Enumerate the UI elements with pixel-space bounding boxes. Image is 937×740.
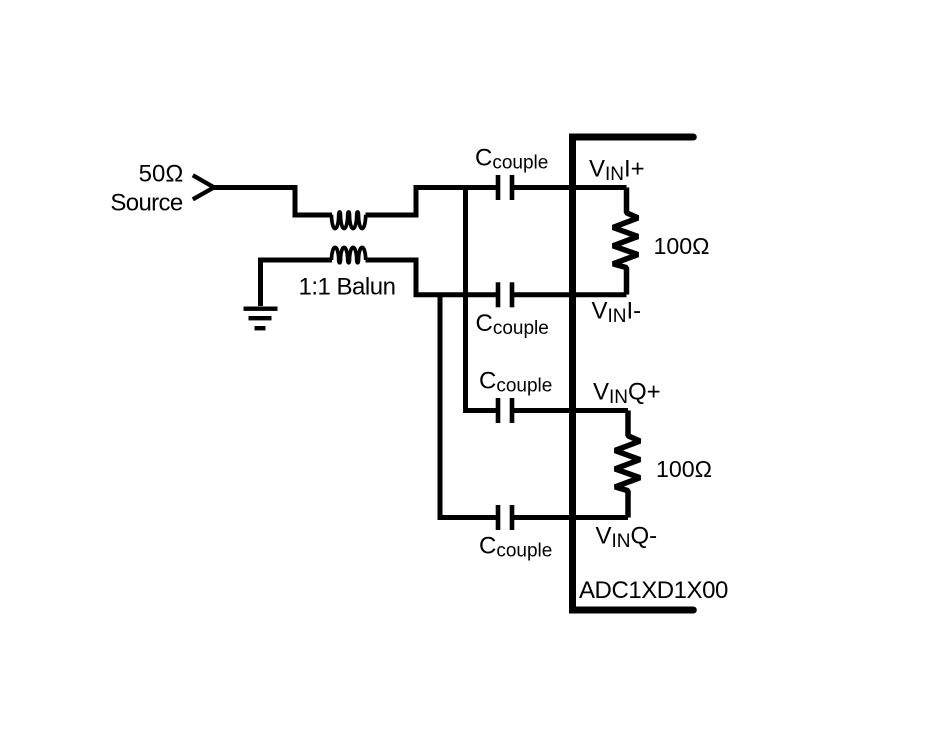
resistor R2 100Ω (Q channel)	[615, 411, 640, 518]
resistor R1 100Ω (I channel)	[613, 188, 638, 295]
vertical wire B: bottom output down to Q- row	[438, 295, 443, 518]
source arrow	[193, 175, 214, 199]
svg-text:Source: Source	[110, 190, 182, 217]
svg-text:1:1 Balun: 1:1 Balun	[299, 274, 396, 301]
wire: row3 from vertical A to cap C3	[463, 408, 497, 413]
wire: balun primary to row1 and cap C1	[366, 188, 498, 216]
wire: balun secondary to row2 and cap C2	[366, 260, 498, 295]
vertical wire A: top output down to Q+ row	[463, 188, 468, 411]
capacitor C1 (Ccouple, VIN I+)	[496, 175, 515, 200]
svg-text:100Ω: 100Ω	[656, 456, 712, 482]
label 50Ω Source	[110, 161, 183, 217]
wire: C4 to resistor node VIN Q-	[513, 515, 629, 520]
capacitor C3 (Ccouple, VIN Q+)	[496, 398, 515, 423]
ADC package outline	[573, 137, 694, 610]
wire: C1 to resistor node VIN I+	[513, 185, 627, 190]
wire: row4 from vertical B to cap C4	[438, 515, 498, 520]
wire: C3 to resistor node VIN Q+	[513, 408, 629, 413]
ground	[244, 307, 278, 331]
svg-text:50Ω: 50Ω	[139, 161, 184, 188]
wire: balun secondary left to ground	[261, 260, 333, 306]
inductor L1 balun primary winding	[332, 212, 366, 229]
wire: source to balun primary	[213, 188, 332, 216]
capacitor C4 (Ccouple, VIN Q-)	[496, 505, 515, 530]
inductor L2 balun secondary winding	[332, 247, 366, 262]
capacitor C2 (Ccouple, VIN I-)	[496, 282, 515, 307]
svg-text:ADC1XD1X00: ADC1XD1X00	[579, 577, 728, 604]
svg-text:100Ω: 100Ω	[654, 233, 710, 259]
wire: C2 to resistor node VIN I-	[513, 292, 627, 297]
